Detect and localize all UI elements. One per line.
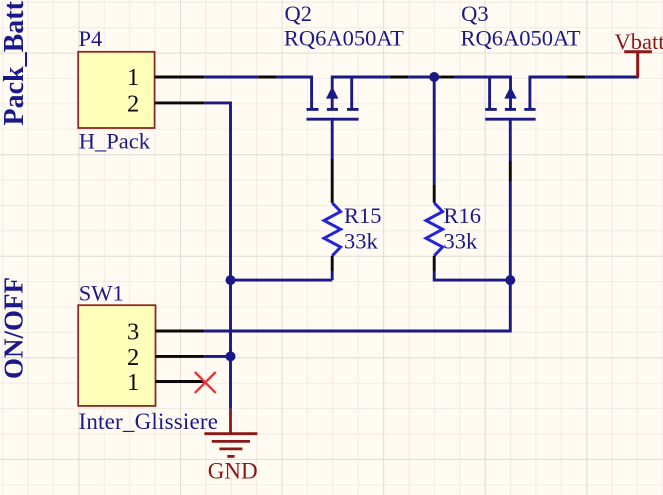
svg-text:P4: P4 <box>79 26 103 51</box>
wire R16 to right rail corner <box>434 271 510 280</box>
power port Vbatt bar symbol <box>624 52 652 77</box>
SW1 pin 1 lead <box>156 380 205 383</box>
connector P4 body <box>78 52 154 128</box>
wire P4.1 to Q2 drain <box>204 76 258 79</box>
wire node A span <box>408 76 440 79</box>
svg-text:Pack_Batt: Pack_Batt <box>0 0 30 125</box>
svg-text:1: 1 <box>127 369 139 396</box>
Q3 gate pin (black) <box>509 161 512 181</box>
SW1 pin 3 lead <box>156 330 205 333</box>
Q2 source pin (black) <box>390 76 408 79</box>
wire P4.2 down the ground column <box>204 103 230 409</box>
ground GND bars <box>204 434 257 457</box>
wire SW1 pin 2 to ground column <box>204 355 230 358</box>
transistor Q2 symbol <box>307 76 359 120</box>
svg-text:1: 1 <box>127 64 139 91</box>
svg-text:H_Pack: H_Pack <box>79 129 151 154</box>
svg-text:Q2: Q2 <box>285 1 313 26</box>
Q2 drain pin (black) <box>258 76 276 79</box>
Q3 source pin (black) <box>440 76 454 79</box>
svg-text:SW1: SW1 <box>79 280 124 305</box>
junction node A dot <box>429 72 439 82</box>
svg-text:R15: R15 <box>344 203 382 228</box>
svg-text:RQ6A050AT: RQ6A050AT <box>461 25 581 50</box>
resistor R16 zigzag <box>426 203 443 256</box>
ground GND stem <box>229 409 232 434</box>
Q2 gate lead (blue) <box>331 119 334 159</box>
svg-text:ON/OFF: ON/OFF <box>0 277 29 379</box>
svg-text:R16: R16 <box>444 203 482 228</box>
svg-text:33k: 33k <box>444 228 479 253</box>
svg-text:Vbatt: Vbatt <box>615 29 663 54</box>
svg-text:GND: GND <box>208 459 258 484</box>
P4 pin 1 lead <box>155 76 205 79</box>
transistor Q3 symbol <box>485 76 535 120</box>
wire R15 to rail <box>331 271 334 280</box>
Q2 gate pin / R15 pin (black) <box>331 159 334 203</box>
wire SW1 pin 3 to Q3 gate rail <box>204 280 510 331</box>
junction dot left rail <box>226 275 236 285</box>
wire into Q3 left terminal <box>454 76 512 79</box>
svg-text:33k: 33k <box>344 228 379 253</box>
wire left gate rail <box>231 279 333 282</box>
no-ERC marker X on SW1 pin 1 <box>195 372 216 393</box>
wire Q3 gate down to rail <box>509 181 512 280</box>
wire into Q2 left terminal <box>276 76 313 79</box>
svg-text:Q3: Q3 <box>461 1 489 26</box>
R16 bottom pin (black) <box>433 256 436 271</box>
junction dot right rail <box>505 275 515 285</box>
svg-text:3: 3 <box>127 319 139 346</box>
svg-text:RQ6A050AT: RQ6A050AT <box>284 25 404 50</box>
Q3 drain pin (black) <box>567 76 585 79</box>
wire Q2 source to node A <box>331 76 390 79</box>
Q2 bulk arrow <box>326 86 338 98</box>
Q3 bulk arrow <box>504 86 516 98</box>
junction dot SW1 pin2 <box>226 351 236 361</box>
svg-text:2: 2 <box>127 91 139 118</box>
SW1 pin 2 lead <box>156 355 205 358</box>
svg-text:Inter_Glissiere: Inter_Glissiere <box>79 409 219 434</box>
switch SW1 body <box>78 305 155 406</box>
R16 top pin (black) <box>433 184 436 202</box>
wire node A down to R16 <box>433 77 436 184</box>
P4 pin 2 lead <box>155 101 205 104</box>
wire to Vbatt port <box>585 76 639 79</box>
wire Q3 drain toward Vbatt <box>529 76 567 79</box>
resistor R15 zigzag <box>324 203 341 256</box>
R15 bottom pin (black) <box>331 256 334 271</box>
svg-text:2: 2 <box>127 344 139 371</box>
Q3 gate lead (blue) <box>509 119 512 161</box>
